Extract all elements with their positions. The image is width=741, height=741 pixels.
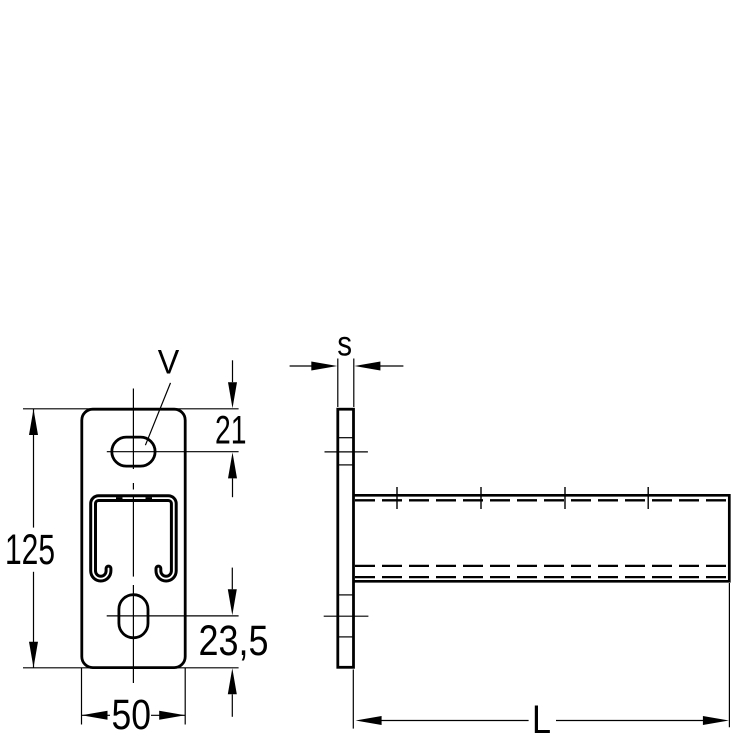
s extension lines [337,359,339,408]
C-channel gap dashes [116,497,123,499]
L right arrow [703,716,729,725]
slot hidden edge bottom [338,464,353,466]
top extension line [23,408,239,410]
dimension 125 line [33,409,35,528]
L extension line right [728,583,730,727]
oval crossing centerline [324,615,369,617]
beam slot tick 1 [396,487,398,509]
svg-text:23,5: 23,5 [199,617,269,665]
dimension 21 lower arrow tail [232,478,234,497]
svg-text:s: s [337,325,352,364]
oval centerline [107,615,239,617]
slot centerline [107,451,239,453]
dimension 23,5 lower arrow [228,668,237,694]
vertical centerline [132,389,134,470]
dimension 23,5 upper arrow tail [231,568,233,590]
plate side outline [338,409,354,667]
oval hidden edge bottom [338,636,353,638]
slot hidden edge top [338,437,353,439]
svg-text:21: 21 [215,408,247,452]
dimension 50 extension lines [81,668,83,725]
L left arrow [356,716,382,725]
L extension line left [352,670,354,729]
bottom extension line [23,667,239,669]
dimension 23,5 upper arrow [228,589,237,615]
V leader line [145,383,170,445]
dimension 50 right arrow [159,711,185,720]
svg-text:L: L [532,698,551,741]
s dimension line left [290,365,312,367]
C-channel inner gap [93,498,174,579]
dimension 21 upper arrow [228,382,237,408]
s left arrow [311,362,337,371]
dimension 50 line [82,714,111,716]
cantilever beam outline [354,495,729,581]
C-channel profile (double line sheet section) [93,498,174,579]
svg-text:50: 50 [112,691,152,739]
beam slot tick 2 [480,487,482,509]
bottom oval hole [119,595,148,638]
oval hidden edge top [338,594,353,596]
beam slot tick 3 [564,487,566,509]
s right arrow [354,362,380,371]
L dimension line [381,720,529,722]
dimension 125 down arrow [29,642,38,668]
dimension 125 up arrow [29,409,38,435]
dimension 50 left arrow [82,711,108,720]
beam hidden dashed line lower 1 [355,565,728,567]
dimension 21 lower arrow [228,452,237,478]
svg-text:125: 125 [5,527,55,574]
beam hidden dashed line lower 2 [355,576,728,578]
slot crossing centerline [325,451,368,453]
svg-text:V: V [158,343,180,381]
s dimension line right [380,365,403,367]
dimension 21 upper arrow tail [232,360,234,382]
dimension 23,5 lower arrow tail [231,694,233,717]
beam hidden dashed line top [355,499,728,501]
top slot hole (obround) [112,437,155,466]
beam slot tick 4 [647,487,649,509]
bracket plate outline [82,409,185,667]
